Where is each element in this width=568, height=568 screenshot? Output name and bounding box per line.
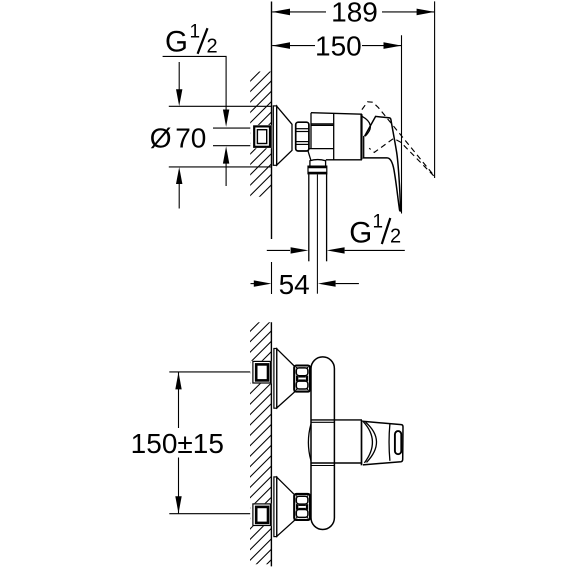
top escutcheon flange <box>274 349 277 409</box>
G1/2 leader underline + down leg <box>163 56 227 111</box>
inner leader lines to square fitting <box>213 127 254 129</box>
svg-text:G: G <box>349 217 372 250</box>
outlet collar <box>310 160 326 167</box>
escutcheon flange (side view) <box>273 106 276 165</box>
bottom hex nut (front view) <box>294 494 310 520</box>
dashed lever (raised position) <box>362 102 434 176</box>
54 dimension <box>254 280 272 286</box>
left bulge arc <box>308 424 311 460</box>
svg-text:70: 70 <box>175 122 206 153</box>
svg-text:1: 1 <box>190 22 201 43</box>
dimension 150 <box>272 35 401 213</box>
square inlet fitting (side view) <box>254 126 270 146</box>
svg-text:54: 54 <box>279 269 310 300</box>
svg-text:2: 2 <box>390 226 401 248</box>
G1/2 pipe leader arrows <box>267 249 290 251</box>
cartridge cap (front view) <box>361 420 363 465</box>
svg-text:1: 1 <box>373 212 384 233</box>
Ø70 arrows at x=179.2 <box>178 62 180 91</box>
pipe centerline <box>316 175 318 294</box>
shower outlet pipe <box>309 174 327 261</box>
top inlet: white backing + square <box>250 361 271 384</box>
escutcheon cone (side view) <box>277 106 292 165</box>
svg-text:2: 2 <box>207 36 218 58</box>
white backing for square fitting <box>250 125 271 148</box>
wall surface line (top view) <box>271 2 273 240</box>
bottom inlet: white backing + square <box>250 503 271 526</box>
leader lower leg with up arrow <box>225 163 227 187</box>
ring section lines <box>311 419 362 421</box>
cap front edge <box>363 136 365 158</box>
svg-text:Ø: Ø <box>150 123 172 154</box>
svg-text:189: 189 <box>331 0 378 28</box>
svg-text:G: G <box>165 25 188 58</box>
top hex nut (front view) <box>294 366 310 392</box>
cartridge dome arc (side view) <box>362 116 371 136</box>
main body right edge <box>360 114 362 159</box>
solid lever handle (side view) <box>363 116 401 211</box>
dimension 189 <box>272 1 434 178</box>
wall extension line for 54 dim <box>271 262 273 294</box>
S-union / body (side view) <box>308 113 362 161</box>
faucet body capsule <box>311 357 334 530</box>
svg-text:150±15: 150±15 <box>131 428 224 459</box>
lever grip (front view) <box>363 421 404 465</box>
150±15 dimension <box>169 371 254 373</box>
bottom escutcheon flange <box>274 477 277 537</box>
wall surface line (bottom view) <box>270 322 272 566</box>
svg-text:150: 150 <box>315 30 362 61</box>
wall hatching (bottom view) <box>239 289 282 568</box>
end oval <box>395 431 401 454</box>
top escutcheon cone <box>277 349 295 408</box>
Ø70 dimension lines <box>169 105 271 107</box>
bottom escutcheon cone <box>277 477 295 536</box>
wall hatching (top view) <box>239 39 282 217</box>
union nut (outlet) <box>308 166 327 174</box>
hex nut (side view) <box>296 122 309 151</box>
